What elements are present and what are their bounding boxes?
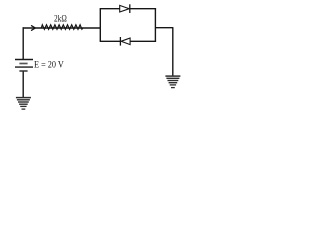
- ground (left, below battery): [16, 98, 31, 110]
- svg-text:E = 20 V: E = 20 V: [34, 59, 64, 69]
- wire: diode block left rail: [99, 9, 101, 42]
- label E = 20 V: [34, 59, 64, 69]
- diode D2 cathode bar (bottom, pointing left): [119, 37, 121, 46]
- ground (right): [165, 76, 180, 88]
- current arrow on top wire: [32, 26, 36, 31]
- battery E: long plate 2: [15, 66, 33, 68]
- wire: top branch right segment: [130, 8, 156, 10]
- battery E: long plate 1: [15, 59, 33, 61]
- battery E: short plate 2: [19, 70, 27, 72]
- resistor 2kΩ zigzag: [41, 25, 83, 30]
- wire: battery bottom to left ground: [22, 72, 24, 98]
- wire: bottom branch right segment: [130, 40, 156, 42]
- wire: output from right rail going right: [155, 27, 173, 29]
- svg-text:2kΩ: 2kΩ: [54, 15, 67, 25]
- wire: left vertical from corner down to battery top: [22, 27, 24, 59]
- wire: top branch left segment: [100, 8, 120, 10]
- wire: top horizontal from left corner to diode block: [23, 27, 101, 29]
- diode D1 cathode bar: [129, 4, 131, 13]
- diode D1 (top, pointing right) triangle: [120, 5, 130, 12]
- label 2kΩ: [54, 15, 67, 25]
- diode D2 triangle: [121, 38, 130, 45]
- wire: output vertical down to right ground: [172, 28, 174, 76]
- wire: diode block right rail: [154, 9, 156, 42]
- wire: bottom branch left segment: [100, 40, 121, 42]
- battery E: short plate 1: [19, 63, 27, 65]
